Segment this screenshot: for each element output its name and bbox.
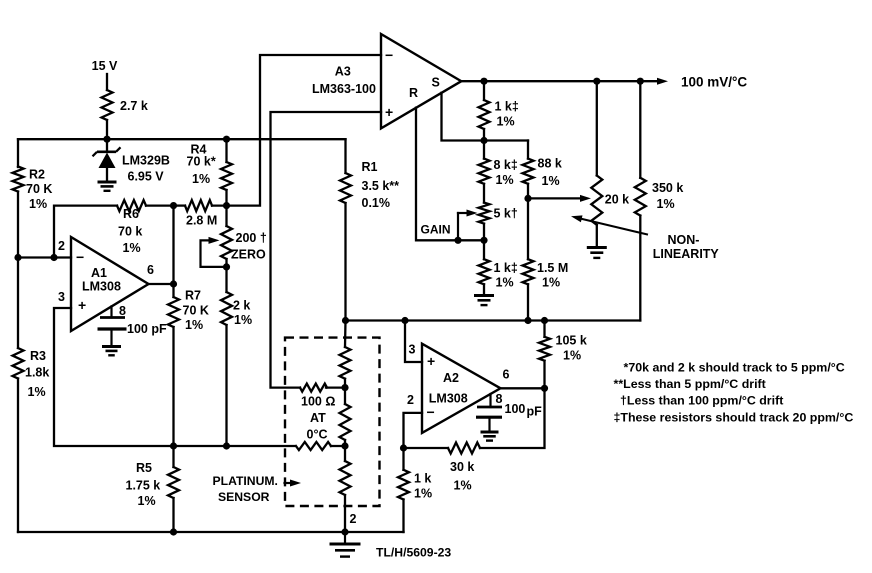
resistor R6 70k	[117, 200, 146, 211]
potentiometer 5 k GAIN	[479, 203, 490, 241]
node 1.5M bottom	[524, 317, 531, 324]
wire A3 output	[461, 80, 659, 82]
resistor R1 3.5k	[340, 139, 351, 320]
svg-text:R2: R2	[29, 168, 45, 182]
label A3 S pin	[432, 76, 440, 90]
label 20k	[605, 193, 629, 207]
wiper arrow 200 ZERO	[201, 237, 227, 267]
wire top rail	[18, 138, 346, 140]
resistor 2.7 k	[102, 90, 113, 120]
svg-text:PLATINUM.: PLATINUM.	[213, 474, 278, 488]
svg-text:LM363-100: LM363-100	[312, 82, 376, 96]
svg-text:2: 2	[407, 393, 414, 407]
node R6/2.8M junction	[170, 202, 177, 209]
svg-text:1%: 1%	[657, 197, 675, 211]
wire A1 feedback up	[172, 206, 174, 284]
label 5k	[494, 207, 518, 221]
svg-text:1%: 1%	[123, 241, 141, 255]
svg-text:LM329B: LM329B	[122, 154, 170, 168]
label TL/H/5609-23	[376, 546, 451, 560]
resistor sensor middle	[340, 379, 351, 446]
svg-text:3: 3	[409, 343, 416, 357]
node 2k bottom junction	[223, 442, 230, 449]
label A3	[312, 65, 376, 97]
node 350k top	[637, 78, 644, 85]
label A3 R pin	[409, 86, 418, 100]
arrow platinum sensor callout	[285, 480, 302, 487]
svg-text:**Less than 5 ppm/°C drift: **Less than 5 ppm/°C drift	[614, 377, 766, 391]
label 2.7 k	[120, 99, 148, 113]
resistor 2.8 M	[185, 200, 212, 211]
resistor R7 70K	[168, 284, 179, 446]
label 100 ohm AT 0C	[301, 395, 335, 442]
label A2 pin 6	[503, 368, 510, 382]
svg-text:8: 8	[496, 392, 503, 406]
svg-text:2.8 M: 2.8 M	[186, 214, 217, 228]
svg-text:100 Ω: 100 Ω	[301, 395, 335, 409]
wire 2.8M to A3 minus input	[212, 55, 381, 206]
label A2 pin 8	[496, 392, 503, 406]
label 8k	[494, 158, 518, 187]
label 1k bottom	[494, 261, 518, 290]
ground A1 cap	[102, 347, 121, 356]
label PLATINUM SENSOR	[213, 474, 278, 504]
label A2 minus	[427, 404, 435, 420]
node gain wiper junction	[454, 237, 461, 244]
svg-text:1%: 1%	[496, 173, 514, 187]
svg-text:1.75 k: 1.75 k	[126, 479, 161, 493]
svg-text:+: +	[385, 104, 393, 120]
svg-text:0.1%: 0.1%	[362, 196, 391, 210]
platinum sensor dashed box	[285, 338, 380, 506]
wire A2 output	[501, 387, 545, 389]
label A2 plus	[427, 353, 435, 369]
svg-text:6.95 V: 6.95 V	[128, 170, 165, 184]
svg-text:AT: AT	[310, 411, 326, 425]
label A2 pin 3	[409, 343, 416, 357]
svg-text:1%: 1%	[542, 276, 560, 290]
svg-text:A1: A1	[91, 266, 107, 280]
node pot bottom junction	[223, 263, 230, 270]
resistor 1 k bottom	[479, 240, 490, 295]
svg-text:S: S	[432, 76, 440, 90]
svg-text:1%: 1%	[185, 318, 203, 332]
label A1 pin 2	[58, 239, 65, 253]
wire A2 pin 2	[404, 413, 423, 448]
svg-text:3.5 k**: 3.5 k**	[362, 179, 400, 193]
svg-text:6: 6	[503, 368, 510, 382]
svg-text:1%: 1%	[28, 385, 46, 399]
label A1 pin 3	[58, 290, 65, 304]
zener D1 LM329B lead	[106, 139, 108, 152]
svg-text:1%: 1%	[454, 479, 472, 493]
wire sensor top	[344, 321, 347, 348]
svg-text:100 pF: 100 pF	[127, 322, 167, 336]
op-amp A1 LM308	[71, 237, 149, 331]
svg-text:8: 8	[119, 304, 126, 318]
svg-text:NON-: NON-	[668, 233, 700, 247]
label R4	[187, 143, 216, 187]
svg-text:88 k: 88 k	[538, 157, 562, 171]
note 1	[624, 361, 845, 375]
resistor 2 k	[221, 267, 232, 446]
node sensor lower junction	[341, 442, 348, 449]
resistor sensor lower	[340, 446, 351, 532]
svg-text:TL/H/5609-23: TL/H/5609-23	[376, 546, 451, 560]
svg-text:†Less than 100 ppm/°C drift: †Less than 100 ppm/°C drift	[620, 394, 783, 408]
capacitor A2 100 pF	[476, 394, 502, 432]
label 88k	[538, 157, 562, 189]
svg-text:2: 2	[58, 239, 65, 253]
wire R pin	[416, 108, 484, 241]
wire mid rail	[346, 319, 641, 321]
svg-text:15 V: 15 V	[92, 59, 118, 73]
resistor 105 k	[539, 321, 550, 389]
resistor R3 1.8k	[13, 348, 24, 379]
node pin2 left rail	[14, 254, 21, 261]
svg-text:1%: 1%	[29, 197, 47, 211]
svg-text:R5: R5	[136, 461, 152, 475]
svg-text:GAIN: GAIN	[421, 223, 451, 237]
node S line junction	[480, 137, 487, 144]
label 30k	[450, 460, 474, 493]
wire left rail lower	[17, 379, 19, 533]
resistor R5 1.75k	[168, 446, 179, 532]
svg-text:1%: 1%	[542, 174, 560, 188]
node 20k top	[593, 78, 600, 85]
wire left rail middle	[17, 192, 19, 349]
label A1	[82, 266, 121, 294]
node R line end	[480, 237, 487, 244]
wire A1 output	[149, 283, 174, 285]
svg-text:+: +	[78, 297, 86, 313]
node R6 elbow	[50, 254, 57, 261]
svg-text:70 K: 70 K	[183, 304, 209, 318]
label 6.95 V	[128, 170, 165, 184]
label A1 100 pF	[127, 322, 167, 336]
label GAIN	[421, 223, 451, 237]
label A1 pin 8	[119, 304, 126, 318]
svg-text:70 K: 70 K	[26, 182, 52, 196]
capacitor A1 100 pF	[98, 306, 127, 346]
svg-text:1 k‡: 1 k‡	[495, 100, 519, 114]
svg-text:1%: 1%	[138, 494, 156, 508]
wire A1 pin 2 input	[18, 256, 71, 258]
label 1k A2	[414, 472, 432, 501]
wire A2 pin 3	[405, 321, 422, 363]
svg-text:1.5 M: 1.5 M	[537, 261, 568, 275]
svg-text:R6: R6	[123, 207, 139, 221]
label 200 ZERO	[231, 231, 267, 262]
svg-text:LINEARITY: LINEARITY	[653, 247, 720, 261]
svg-text:R: R	[409, 86, 418, 100]
node 1k top	[480, 78, 487, 85]
wiper arrow 5k GAIN	[458, 210, 478, 241]
resistor 8 k	[479, 141, 490, 203]
wire R6 elbow	[54, 206, 117, 258]
svg-text:2.7 k: 2.7 k	[120, 99, 148, 113]
resistor 1 k A2	[398, 448, 409, 532]
resistor sensor lower lead	[296, 442, 331, 450]
svg-text:1%: 1%	[497, 115, 515, 129]
label A3 minus	[385, 47, 393, 63]
label A3 plus	[385, 104, 393, 120]
resistor 1.5 M	[523, 198, 534, 320]
node R7/R5 junction	[170, 442, 177, 449]
label A2	[429, 371, 468, 406]
svg-text:A2: A2	[443, 371, 459, 385]
svg-text:1 k: 1 k	[414, 472, 431, 486]
svg-text:5 k†: 5 k†	[494, 207, 518, 221]
svg-text:1.8k: 1.8k	[25, 366, 49, 380]
note 3	[620, 394, 783, 408]
ground A2 cap	[481, 432, 499, 441]
op-amp A3 LM363-100	[381, 34, 461, 128]
resistor sensor upper	[340, 347, 351, 379]
label R2	[26, 168, 52, 212]
op-amp A2 LM308	[422, 344, 501, 433]
potentiometer 20 k	[591, 81, 602, 247]
svg-text:R1: R1	[362, 160, 378, 174]
ground zener	[98, 182, 117, 191]
svg-text:pF: pF	[527, 405, 543, 419]
svg-text:100: 100	[505, 402, 526, 416]
node R4 bottom junction	[223, 202, 230, 209]
svg-text:8 k‡: 8 k‡	[494, 158, 518, 172]
svg-text:A3: A3	[335, 65, 351, 79]
svg-text:R7: R7	[185, 289, 201, 303]
wire S pin	[442, 93, 529, 141]
resistor sensor upper lead	[300, 384, 327, 392]
wire R6 to node	[146, 204, 174, 206]
svg-text:3: 3	[58, 290, 65, 304]
label 2.8 M	[186, 214, 217, 228]
label R1	[362, 160, 400, 210]
svg-text:1%: 1%	[192, 172, 210, 186]
label 350k	[652, 181, 683, 211]
node R4 top junction	[223, 136, 230, 143]
label R7	[183, 289, 209, 333]
wire left rail upper	[17, 139, 19, 167]
svg-text:‡These resistors should track: ‡These resistors should track 20 ppm/°C	[614, 411, 854, 425]
label 1k top	[495, 100, 519, 129]
svg-text:*70k and 2 k should track to 5: *70k and 2 k should track to 5 ppm/°C	[624, 361, 845, 375]
zener D1 LM329B	[93, 147, 121, 182]
svg-text:105 k: 105 k	[556, 334, 587, 348]
svg-text:1%: 1%	[234, 313, 252, 327]
power 15 V supply lead	[106, 74, 108, 139]
potentiometer 200 ZERO	[221, 206, 232, 267]
node R5 bottom	[170, 528, 177, 535]
ground 20k	[587, 248, 607, 258]
arrow non-linearity	[571, 215, 647, 234]
svg-text:1%: 1%	[496, 276, 514, 290]
note 4	[614, 411, 854, 425]
svg-text:R3: R3	[30, 349, 46, 363]
node A2 pin3 junction	[401, 317, 408, 324]
svg-text:+: +	[427, 353, 435, 369]
resistor R4 70k*	[221, 139, 232, 205]
label R5	[126, 461, 161, 508]
node 88k/1.5M junction	[524, 195, 531, 202]
ground 1k chain	[474, 296, 494, 306]
label 2 k	[233, 299, 252, 328]
node R1 bottom	[342, 317, 349, 324]
node A2 output	[541, 385, 548, 392]
svg-text:LM308: LM308	[82, 280, 121, 294]
wire 2.8M left stub	[174, 204, 186, 206]
arrow output	[657, 78, 668, 85]
label A1 minus	[76, 249, 84, 265]
note 2	[614, 377, 766, 391]
node sensor upper lead junction	[341, 384, 348, 391]
wire upper lead to node	[326, 386, 345, 388]
svg-text:2: 2	[350, 512, 357, 526]
svg-text:1%: 1%	[414, 487, 432, 501]
label 105k	[556, 334, 587, 363]
label A2 100 pF	[505, 402, 543, 419]
svg-text:2 k: 2 k	[233, 299, 250, 313]
svg-text:−: −	[427, 404, 435, 420]
svg-text:−: −	[385, 47, 393, 63]
svg-text:−: −	[76, 249, 84, 265]
svg-text:70 k*: 70 k*	[187, 155, 216, 169]
node A1 output	[170, 280, 177, 287]
wire bottom bus	[18, 531, 404, 533]
label R3	[25, 349, 49, 399]
svg-text:350 k: 350 k	[652, 181, 683, 195]
svg-text:1 k‡: 1 k‡	[494, 261, 518, 275]
label R6	[118, 207, 142, 255]
node sensor ground	[341, 528, 348, 535]
svg-text:200 †: 200 †	[236, 231, 267, 245]
svg-text:1%: 1%	[563, 349, 581, 363]
svg-text:20 k: 20 k	[605, 193, 629, 207]
ground main	[330, 532, 361, 557]
label A1 plus	[78, 297, 86, 313]
label A1 pin 6	[147, 263, 154, 277]
label sensor pin 2	[350, 512, 357, 526]
wire A3 plus input run	[271, 112, 382, 388]
label 100 mV/C	[681, 75, 747, 90]
svg-text:ZERO: ZERO	[231, 248, 266, 262]
label LM329B	[122, 154, 170, 168]
svg-text:30 k: 30 k	[450, 460, 474, 474]
resistor 30 k	[404, 388, 545, 453]
wire lower lead to node	[331, 445, 345, 447]
node 105k top	[541, 317, 548, 324]
label 15 V	[92, 59, 118, 73]
label NON-LINEARITY	[653, 233, 720, 261]
resistor 350 k	[635, 81, 646, 320]
label 1.5M	[537, 261, 568, 290]
svg-text:SENSOR: SENSOR	[218, 490, 270, 504]
wiper arrow 20k	[528, 195, 591, 202]
svg-text:6: 6	[147, 263, 154, 277]
wire A1 pin 3 run	[54, 308, 295, 446]
label A2 pin 2	[407, 393, 414, 407]
svg-text:70 k: 70 k	[118, 225, 142, 239]
resistor R2 70K	[13, 167, 24, 192]
resistor 88 k	[523, 141, 534, 199]
svg-text:100 mV/°C: 100 mV/°C	[681, 75, 747, 90]
resistor 1 k top	[479, 81, 490, 140]
node 2.7k/zener junction	[103, 136, 110, 143]
svg-text:0°C: 0°C	[307, 428, 328, 442]
node A2 pin2/30k junction	[400, 444, 407, 451]
